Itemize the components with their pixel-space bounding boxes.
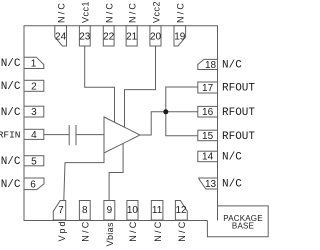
- svg-text:N/C: N/C: [56, 1, 66, 23]
- svg-text:1: 1: [31, 58, 37, 69]
- svg-text:16: 16: [202, 107, 214, 118]
- svg-text:RFOUT: RFOUT: [222, 107, 255, 119]
- svg-text:N/C: N/C: [1, 58, 21, 70]
- svg-text:11: 11: [152, 205, 163, 216]
- svg-text:22: 22: [103, 32, 115, 43]
- svg-text:15: 15: [202, 131, 214, 142]
- svg-text:10: 10: [127, 205, 139, 216]
- svg-text:N/C: N/C: [128, 220, 138, 242]
- svg-text:Vcc2: Vcc2: [151, 1, 161, 23]
- svg-text:13: 13: [205, 179, 217, 190]
- svg-text:Vbias: Vbias: [105, 222, 115, 246]
- svg-text:6: 6: [30, 179, 36, 190]
- svg-text:Vcc1: Vcc1: [81, 1, 91, 23]
- svg-text:Vpd: Vpd: [57, 219, 67, 241]
- svg-text:5: 5: [31, 156, 37, 167]
- svg-text:21: 21: [126, 32, 138, 43]
- svg-text:RFIN: RFIN: [0, 130, 21, 141]
- svg-text:N/C: N/C: [222, 152, 242, 164]
- svg-text:9: 9: [107, 205, 113, 216]
- svg-text:N/C: N/C: [153, 220, 163, 242]
- svg-text:4: 4: [31, 130, 37, 141]
- svg-text:24: 24: [55, 32, 67, 43]
- svg-text:N/C: N/C: [222, 60, 242, 72]
- svg-text:8: 8: [82, 205, 88, 216]
- svg-text:20: 20: [150, 32, 162, 43]
- svg-text:N/C: N/C: [177, 220, 187, 242]
- svg-text:N/C: N/C: [1, 81, 21, 93]
- svg-text:N/C: N/C: [1, 156, 21, 168]
- svg-text:N/C: N/C: [104, 1, 114, 23]
- svg-text:17: 17: [202, 83, 214, 94]
- svg-text:N/C: N/C: [128, 1, 138, 23]
- svg-text:RFOUT: RFOUT: [222, 131, 255, 143]
- svg-text:23: 23: [79, 32, 91, 43]
- svg-text:N/C: N/C: [1, 179, 21, 191]
- svg-text:BASE: BASE: [232, 221, 254, 230]
- svg-text:N/C: N/C: [1, 107, 21, 119]
- svg-text:14: 14: [202, 152, 214, 163]
- svg-text:12: 12: [175, 205, 187, 216]
- svg-text:N/C: N/C: [222, 179, 242, 191]
- svg-text:7: 7: [58, 205, 64, 216]
- svg-text:2: 2: [31, 81, 37, 92]
- svg-text:19: 19: [174, 32, 186, 43]
- svg-text:N/C: N/C: [176, 1, 186, 23]
- svg-text:N/C: N/C: [81, 220, 91, 242]
- svg-text:3: 3: [31, 107, 37, 118]
- svg-text:RFOUT: RFOUT: [222, 83, 255, 95]
- svg-text:18: 18: [205, 60, 217, 71]
